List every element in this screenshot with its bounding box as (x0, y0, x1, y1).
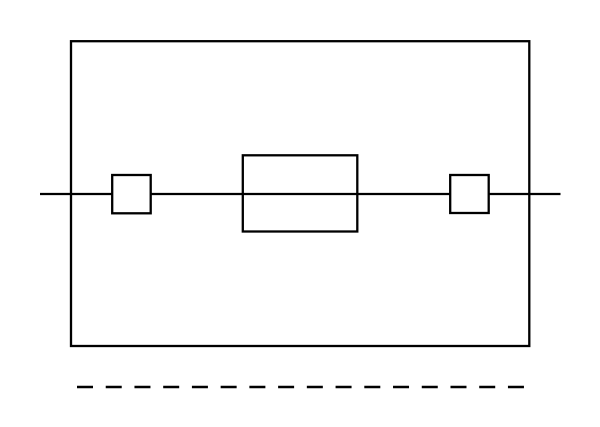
fuse F1 (rectangle with conductor passing through) (243, 155, 357, 231)
clamp contact (right) (450, 175, 489, 213)
dashed separator line (77, 386, 524, 388)
wire (through conductor, left lead to right lead) (40, 193, 561, 195)
terminal block body outline (71, 41, 529, 346)
clamp contact (left) (112, 175, 151, 213)
